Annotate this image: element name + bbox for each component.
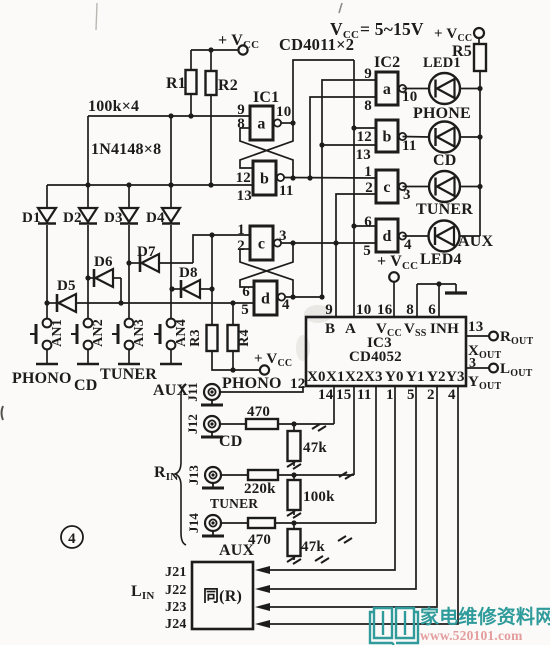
svg-text:9: 9 <box>325 302 333 318</box>
label CD4011 x2 <box>279 35 354 54</box>
resistor R3 <box>188 325 218 351</box>
pin 10 IC1a <box>276 104 291 120</box>
svg-text:J24: J24 <box>165 617 187 632</box>
wire AUX node <box>275 520 376 525</box>
svg-text:11: 11 <box>402 138 417 154</box>
label J24 <box>165 617 187 632</box>
jack J13 TUNER <box>186 465 224 488</box>
mark ticks 2 <box>339 472 353 479</box>
svg-text:4: 4 <box>68 531 76 547</box>
mark ticks 4 <box>315 556 329 563</box>
op-amp U1 label IC1 <box>253 89 279 106</box>
svg-text:6: 6 <box>428 302 436 318</box>
pin 9 IC2a <box>364 66 372 82</box>
wire IC1b output <box>284 175 377 180</box>
ground (47k CD) <box>287 462 301 469</box>
ground (AN2) <box>77 363 99 366</box>
svg-text:11: 11 <box>279 183 294 199</box>
wire IC2b pin12 <box>354 127 376 129</box>
svg-text:PHONO: PHONO <box>12 370 72 387</box>
label X3 <box>364 369 383 385</box>
resistor 47k (AUX) <box>288 523 326 560</box>
diode D5 <box>47 278 121 312</box>
svg-text:D8: D8 <box>179 265 198 281</box>
svg-text:AN4: AN4 <box>174 319 189 347</box>
resistor 470 (AUX) <box>248 518 275 548</box>
wire bus1 tie D4 <box>170 116 172 185</box>
wire pin5 down <box>262 386 416 589</box>
svg-text:J13: J13 <box>186 465 201 485</box>
gate IC2d <box>376 219 406 252</box>
svg-text:5: 5 <box>407 387 415 403</box>
pin 13 IC1b <box>237 188 252 204</box>
svg-text:47k: 47k <box>303 440 327 456</box>
label X0 <box>307 369 326 385</box>
pin 10 IC3 <box>356 302 371 318</box>
svg-text:1: 1 <box>364 164 372 180</box>
svg-text:a: a <box>383 81 391 98</box>
wire D7 to IC1 pin1 <box>193 232 250 263</box>
svg-text:RIN: RIN <box>154 464 178 483</box>
switch AN1 <box>30 319 65 350</box>
svg-text:D3: D3 <box>104 210 123 226</box>
svg-text:10: 10 <box>402 89 417 105</box>
pin 5 IC3 <box>407 387 415 403</box>
svg-text:2: 2 <box>237 238 245 254</box>
svg-text:ROUT: ROUT <box>500 329 533 347</box>
svg-text:家电维修资料网: 家电维修资料网 <box>420 605 550 628</box>
label Xout <box>468 343 501 361</box>
arrow to J24 <box>255 620 270 628</box>
svg-text:TUNER: TUNER <box>100 366 157 383</box>
label LED4 <box>420 251 462 268</box>
svg-text:LED1: LED1 <box>423 55 461 71</box>
wire column D3 <box>128 185 130 319</box>
wire LED cathode trunk <box>479 89 481 237</box>
label AUX led <box>458 233 494 250</box>
pin 12 IC3 <box>290 376 305 392</box>
svg-text:LIN: LIN <box>131 583 155 602</box>
pin 9 IC3 <box>325 302 333 318</box>
svg-text:AUX: AUX <box>153 382 189 399</box>
svg-text:12: 12 <box>236 170 251 186</box>
ground (IC3) <box>445 291 467 294</box>
svg-text:4: 4 <box>448 387 456 403</box>
label B <box>325 321 335 337</box>
pin 8 IC3 <box>406 302 414 318</box>
label Lin <box>131 583 155 602</box>
label Rin <box>154 464 178 483</box>
svg-text:VCC: VCC <box>330 19 359 41</box>
svg-text:IC2: IC2 <box>374 54 400 71</box>
gate IC2a <box>376 72 406 105</box>
svg-text:R1: R1 <box>166 75 186 92</box>
wire IC1a output <box>281 120 296 125</box>
wire J11 to pin12 <box>220 386 303 392</box>
wire IC2b pin13 <box>322 145 376 163</box>
gate IC1d <box>254 281 285 315</box>
terminal Lout <box>489 361 533 379</box>
svg-text:AN3: AN3 <box>132 319 147 347</box>
pin 2 IC3 <box>427 387 435 403</box>
label Y0 <box>385 369 404 385</box>
svg-text:D4: D4 <box>146 210 165 226</box>
wire +Vcc to R1/R2 <box>191 47 239 52</box>
jack J12 CD <box>185 414 223 437</box>
scan artifact line <box>96 3 97 30</box>
svg-text:b: b <box>260 171 269 188</box>
svg-text:12: 12 <box>357 129 372 145</box>
svg-text:Y2: Y2 <box>427 369 446 385</box>
svg-text:11: 11 <box>357 387 372 403</box>
svg-text:470: 470 <box>247 404 270 420</box>
label Vss pin <box>404 321 427 339</box>
pin 14 IC3 <box>318 387 334 403</box>
pin 16 IC3 <box>377 302 393 318</box>
ground (AN4) <box>160 363 182 366</box>
svg-text:13: 13 <box>237 188 252 204</box>
svg-text:CD4052: CD4052 <box>349 349 402 365</box>
pin 12 IC1b <box>236 170 251 186</box>
diode D7 <box>129 244 193 272</box>
svg-text:100k: 100k <box>303 489 335 505</box>
gate IC1b <box>253 161 284 195</box>
wire latch2 cross d-to-c <box>240 249 293 297</box>
svg-text:B: B <box>325 321 335 337</box>
power +Vcc IC3 pin16 <box>377 253 418 317</box>
label 1N4148 x 8 <box>91 141 161 158</box>
wire J12 to R <box>220 423 246 425</box>
wire Rout <box>466 335 489 337</box>
resistor 220k <box>244 470 278 497</box>
label AUX jack <box>219 542 255 559</box>
arrow to J23 <box>255 603 270 611</box>
svg-text:D6: D6 <box>94 254 113 270</box>
brace Rin <box>175 384 186 545</box>
label Yout <box>468 374 501 392</box>
label PHONO jack <box>222 375 282 392</box>
pin 1 IC2c <box>364 164 372 180</box>
wire trunk T1 IC1a out up <box>293 60 354 123</box>
pin 8 IC2a <box>364 98 372 114</box>
switch AN2 <box>71 319 106 350</box>
node D6 tap <box>85 275 90 280</box>
svg-text:6: 6 <box>242 284 250 300</box>
resistor R1 <box>166 50 197 116</box>
wire D5 line to IC1 pin5 <box>118 300 254 305</box>
wire J14 to R <box>221 522 248 524</box>
svg-text:b: b <box>382 129 391 146</box>
wire IC3 pin8 pin6 to ground <box>417 281 456 317</box>
ground (47k AUX) <box>287 557 301 564</box>
gate IC2c <box>376 170 406 203</box>
pin 11 IC1b <box>279 183 294 199</box>
svg-text:6: 6 <box>364 214 372 230</box>
svg-text:D7: D7 <box>137 244 156 260</box>
diode D6 <box>88 254 121 287</box>
box right channel <box>192 562 253 629</box>
svg-text:VSS: VSS <box>404 321 427 339</box>
wire AN4 to ground <box>170 350 172 365</box>
pin 13 IC3 <box>468 319 483 335</box>
label A <box>345 321 356 337</box>
svg-text:同(R): 同(R) <box>203 587 242 605</box>
wire column D4 <box>170 185 172 319</box>
LED2 PHONE <box>403 122 483 153</box>
label Y2 <box>427 369 446 385</box>
svg-text:5: 5 <box>241 302 249 318</box>
svg-text:14: 14 <box>318 387 334 403</box>
svg-text:X1: X1 <box>326 369 345 385</box>
wire IC1c output <box>281 240 377 245</box>
svg-text:13: 13 <box>356 147 371 163</box>
scan artifact mark left <box>2 406 4 420</box>
wire bus1 tie left <box>87 116 89 185</box>
svg-text:AN2: AN2 <box>91 319 106 347</box>
svg-text:INH: INH <box>430 321 459 337</box>
svg-text:2: 2 <box>427 387 435 403</box>
svg-text:TUNER: TUNER <box>210 496 258 511</box>
svg-text:www.520101.com: www.520101.com <box>420 628 523 643</box>
svg-text:9: 9 <box>364 66 372 82</box>
svg-text:c: c <box>383 179 390 196</box>
wire CD node <box>278 421 334 426</box>
ground (AN3) <box>118 363 140 366</box>
wire latch2 cross c-to-d <box>240 243 293 287</box>
mark ticks 1 <box>312 424 326 431</box>
label TUNER sw <box>100 366 157 383</box>
resistor 100k <box>288 475 336 515</box>
wire AN3 to ground <box>128 350 130 365</box>
svg-text:LED4: LED4 <box>420 251 462 268</box>
label J22 <box>165 583 187 598</box>
pin 3 IC2c <box>403 187 411 203</box>
wire IC1d output <box>285 294 325 299</box>
svg-text:YOUT: YOUT <box>468 374 501 392</box>
svg-text:3: 3 <box>279 228 287 244</box>
svg-text:= 5~15V: = 5~15V <box>360 19 424 39</box>
arrow to J21 <box>255 566 270 574</box>
pin 6 IC3 <box>428 302 436 318</box>
svg-text:3: 3 <box>403 187 411 203</box>
wire R3 R4 to Vcc <box>212 351 260 373</box>
label Y3 <box>446 369 465 385</box>
pin 6 IC1d <box>242 284 250 300</box>
pin 8 IC1a <box>237 116 250 132</box>
node D7 tap <box>126 260 131 265</box>
pin 11 IC3 <box>357 387 372 403</box>
resistor R4 <box>228 303 253 351</box>
wire AN2 to ground <box>87 350 89 365</box>
wire pin2 down <box>262 386 437 607</box>
svg-text:R2: R2 <box>218 77 238 94</box>
svg-text:13: 13 <box>468 319 483 335</box>
svg-text:5: 5 <box>363 243 371 259</box>
svg-text:PHONE: PHONE <box>413 105 471 122</box>
svg-text:CD: CD <box>219 433 243 450</box>
terminal Rout <box>489 329 533 347</box>
svg-text:LOUT: LOUT <box>500 361 533 379</box>
scan artifact tick <box>339 3 342 13</box>
svg-text:CD: CD <box>74 377 98 394</box>
svg-text:CD: CD <box>433 152 457 169</box>
pin 6 IC2d <box>354 214 376 230</box>
svg-text:AN1: AN1 <box>50 319 65 347</box>
label X1 <box>326 369 345 385</box>
power +Vcc terminal (R3R4) <box>254 351 292 375</box>
ground (AN1) <box>36 363 58 366</box>
wire column D2 <box>87 185 89 319</box>
label CD sw <box>74 377 98 394</box>
svg-text:1N4148×8: 1N4148×8 <box>91 141 161 158</box>
scan artifact smudge1 <box>304 305 332 323</box>
svg-text:220k: 220k <box>244 481 276 497</box>
svg-text:470: 470 <box>248 532 271 548</box>
pin 3 IC3 <box>469 356 476 371</box>
svg-text:Y0: Y0 <box>385 369 404 385</box>
resistor 470 (CD) <box>246 404 278 429</box>
svg-text:J21: J21 <box>165 565 187 580</box>
svg-text:4: 4 <box>282 297 290 313</box>
label X2 <box>345 369 364 385</box>
label 100k x 4 <box>88 98 139 115</box>
gate IC2b <box>376 120 406 152</box>
svg-text:4: 4 <box>404 237 412 253</box>
diode D3 <box>104 208 138 226</box>
scan artifact smudge2 <box>296 335 310 361</box>
wire node column x212 <box>209 235 214 325</box>
svg-text:100k×4: 100k×4 <box>88 98 139 115</box>
wire latch1 cross a-to-b <box>240 123 293 168</box>
pin 3 IC1c <box>279 228 287 244</box>
svg-text:PHONO: PHONO <box>222 375 282 392</box>
pin 5 IC2d <box>363 243 371 259</box>
wire column D1 <box>46 185 48 319</box>
gate IC1a <box>250 106 281 140</box>
svg-text:VCC: VCC <box>376 321 402 339</box>
label Vcc pin <box>376 321 402 339</box>
svg-text:TUNER: TUNER <box>416 201 473 218</box>
svg-text:X3: X3 <box>364 369 383 385</box>
wire bus to IC1 pin13 <box>47 182 253 187</box>
svg-text:+ VCC: + VCC <box>377 253 418 272</box>
wire trunk T2 down to IC3 pin10 <box>351 60 356 316</box>
svg-text:+ VCC: + VCC <box>254 351 292 369</box>
svg-text:D5: D5 <box>57 278 76 294</box>
label PHONE <box>413 105 471 122</box>
wire pin1 down <box>262 386 395 570</box>
wire pin11 to AUX node <box>375 386 377 523</box>
svg-text:Y3: Y3 <box>446 369 465 385</box>
svg-text:Y1: Y1 <box>406 369 425 385</box>
wire latch1 cross b-to-a <box>240 128 293 178</box>
svg-text:10: 10 <box>356 302 371 318</box>
wire Lout <box>466 367 489 369</box>
jack J11 PHONO <box>185 382 223 405</box>
ground (100k) <box>287 511 301 518</box>
wire pin14 to CD node <box>333 386 335 424</box>
label INH <box>430 321 459 337</box>
figure number 4 <box>61 526 83 548</box>
LED4 AUX <box>403 221 481 252</box>
label LED1 <box>423 55 461 71</box>
wire trunk T3 IC1d out to IC2a pin9 <box>319 80 376 297</box>
svg-text:R4: R4 <box>237 329 252 347</box>
wire J13 to R <box>221 474 248 476</box>
power +Vcc terminal (right) <box>434 26 484 44</box>
pin 4 IC1d <box>282 297 290 313</box>
wire trunk T4 IC1b out to IC2a pin8 <box>310 97 376 178</box>
LED1 <box>403 73 483 104</box>
svg-text:D1: D1 <box>22 210 41 226</box>
diode D1 <box>22 208 56 226</box>
wire TUNER node <box>278 472 354 477</box>
label Vcc range <box>330 19 424 41</box>
label PHONO sw <box>12 370 72 387</box>
node D5 tap <box>44 300 49 305</box>
svg-text:AUX: AUX <box>458 233 494 250</box>
IC U3 CD4052 box <box>306 317 466 386</box>
svg-text:R3: R3 <box>188 329 203 347</box>
svg-text:47k: 47k <box>301 539 325 555</box>
svg-text:8: 8 <box>364 98 372 114</box>
pin 11 IC2b <box>402 138 417 154</box>
label J21 <box>165 565 187 580</box>
svg-text:J22: J22 <box>165 583 187 598</box>
svg-text:2: 2 <box>365 180 373 196</box>
svg-text:X0: X0 <box>307 369 326 385</box>
watermark logo <box>370 605 550 645</box>
pin 4 IC3 <box>448 387 456 403</box>
node D8 tap <box>169 286 174 291</box>
svg-text:J23: J23 <box>165 600 187 615</box>
diode D2 <box>63 208 97 226</box>
label TUNER led <box>416 201 473 218</box>
resistor R2 <box>206 50 238 185</box>
wire bus 100k to IC1 pin9 <box>88 113 250 118</box>
label AUX brace <box>0 0 1 1</box>
gate IC1c <box>250 226 281 260</box>
svg-text:J14: J14 <box>186 513 201 533</box>
arrow to J22 <box>255 585 270 593</box>
pin 15 IC3 <box>336 387 351 403</box>
LED3 CD <box>403 171 483 202</box>
svg-text:X2: X2 <box>345 369 364 385</box>
svg-text:16: 16 <box>377 302 393 318</box>
pin 4 IC2d <box>404 237 412 253</box>
label CD jack <box>219 433 243 450</box>
wire AN1 to ground <box>46 350 48 365</box>
label CD led <box>433 152 457 169</box>
pin 12 IC2b <box>357 129 372 145</box>
svg-text:A: A <box>345 321 356 337</box>
switch AN3 <box>112 319 147 350</box>
label CD4052 <box>349 349 402 365</box>
svg-text:8: 8 <box>406 302 414 318</box>
pin 10 IC2a <box>402 89 417 105</box>
svg-text:1: 1 <box>386 387 394 403</box>
pin 2 IC1c <box>237 238 250 254</box>
pin 5 IC1d <box>241 302 249 318</box>
svg-text:D2: D2 <box>63 210 82 226</box>
wire trunk T5 to IC3 pin9 <box>336 194 376 316</box>
svg-text:a: a <box>257 116 265 133</box>
svg-text:15: 15 <box>336 387 351 403</box>
svg-text:J12: J12 <box>185 414 200 434</box>
diode D4 <box>146 208 180 226</box>
pin 9 IC1a <box>237 102 245 118</box>
svg-text:10: 10 <box>276 104 291 120</box>
